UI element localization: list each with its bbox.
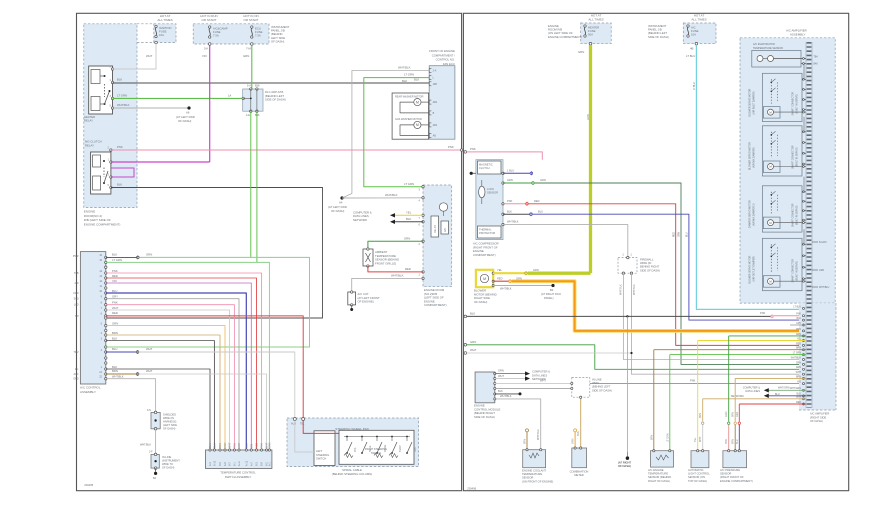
svg-text:A/C: A/C xyxy=(444,228,447,232)
svg-text:GRN: GRN xyxy=(146,253,152,257)
svg-text:WHT/BLK: WHT/BLK xyxy=(500,287,512,291)
svg-text:OF DASH): OF DASH) xyxy=(162,466,175,470)
svg-text:ALL TIMES: ALL TIMES xyxy=(157,18,172,22)
svg-text:B36: B36 xyxy=(255,114,260,117)
svg-text:YEL: YEL xyxy=(497,268,502,272)
svg-text:BRN: BRN xyxy=(219,443,222,448)
svg-text:BLK: BLK xyxy=(209,443,212,448)
svg-text:LWD: LWD xyxy=(73,292,78,295)
svg-text:B38: B38 xyxy=(255,85,260,88)
svg-text:REAR WASHER MOTOR: REAR WASHER MOTOR xyxy=(395,95,424,98)
svg-text:MAGNETIC: MAGNETIC xyxy=(479,162,493,166)
svg-text:PWR: PWR xyxy=(73,255,79,258)
svg-text:WHT: WHT xyxy=(699,436,702,442)
svg-text:(ON FRONT OF ENGINE): (ON FRONT OF ENGINE) xyxy=(522,479,553,483)
svg-text:GRN: GRN xyxy=(679,232,681,237)
svg-text:VIO: VIO xyxy=(112,279,118,283)
svg-text:PNK: PNK xyxy=(117,145,123,149)
svg-text:GRN: GRN xyxy=(470,340,476,344)
svg-text:PNK: PNK xyxy=(760,311,766,315)
svg-text:SIDE OF DASH): SIDE OF DASH) xyxy=(474,415,495,419)
svg-text:GRN: GRN xyxy=(796,362,801,364)
svg-text:PNK: PNK xyxy=(796,314,801,316)
svg-text:WHT/BLK: WHT/BLK xyxy=(620,284,623,295)
svg-text:A/C EVAPORATOR: A/C EVAPORATOR xyxy=(753,43,775,46)
svg-text:BLU: BLU xyxy=(538,209,543,213)
svg-text:YEL: YEL xyxy=(406,210,412,214)
svg-text:B-GRN: B-GRN xyxy=(819,242,827,244)
svg-text:A-9: A-9 xyxy=(224,462,227,466)
svg-text:LIGHT CONTROL: LIGHT CONTROL xyxy=(688,472,710,476)
svg-text:BLK: BLK xyxy=(117,183,122,187)
svg-text:GRN: GRN xyxy=(819,270,824,272)
svg-text:OR START: OR START xyxy=(202,18,217,22)
svg-text:VIO: VIO xyxy=(202,54,208,58)
svg-text:BRN: BRN xyxy=(699,413,702,418)
svg-text:OF DASH): OF DASH) xyxy=(178,119,191,123)
svg-text:SENSOR: SENSOR xyxy=(487,191,498,195)
svg-text:(RIGHT FRONT OF: (RIGHT FRONT OF xyxy=(720,475,744,479)
svg-text:FRONT GRILLE): FRONT GRILLE) xyxy=(375,261,396,265)
svg-text:BLOWER SERVO MOTOR: BLOWER SERVO MOTOR xyxy=(750,88,752,116)
svg-text:TOP OF DASH): TOP OF DASH) xyxy=(688,479,707,483)
svg-text:SIDE OF DASH): SIDE OF DASH) xyxy=(592,388,612,392)
svg-text:AUTOMATIC: AUTOMATIC xyxy=(688,468,704,472)
svg-text:WHT: WHT xyxy=(796,372,802,374)
svg-text:SIDE OF DASH): SIDE OF DASH) xyxy=(265,98,286,102)
svg-text:CLUTCH: CLUTCH xyxy=(479,166,490,170)
svg-text:(BEHIND STEERING COLUMN): (BEHIND STEERING COLUMN) xyxy=(332,472,372,476)
svg-text:GRY: GRY xyxy=(112,295,118,299)
svg-text:(AT RIGHT: (AT RIGHT xyxy=(618,461,632,465)
svg-text:OF DASH): OF DASH) xyxy=(331,209,344,213)
svg-text:LT GRN: LT GRN xyxy=(666,433,669,442)
svg-text:GRN: GRN xyxy=(404,236,410,240)
svg-text:A/C AMPLIFIER: A/C AMPLIFIER xyxy=(810,412,829,416)
svg-text:TAB: TAB xyxy=(74,272,79,275)
svg-text:4-E: 4-E xyxy=(246,114,250,117)
svg-text:RED: RED xyxy=(497,276,503,280)
svg-text:GRY: GRY xyxy=(238,442,241,448)
svg-text:SMART CONNECTOR: SMART CONNECTOR xyxy=(792,145,795,169)
svg-text:STEERING: STEERING xyxy=(316,453,329,457)
svg-text:RELAY: RELAY xyxy=(85,143,94,147)
svg-text:PNK: PNK xyxy=(112,301,118,305)
svg-text:GRN: GRN xyxy=(796,367,801,369)
svg-text:RELAY: RELAY xyxy=(84,119,93,123)
svg-text:RED: RED xyxy=(112,274,118,278)
svg-text:AID: AID xyxy=(75,282,79,285)
svg-text:WHT/GRN: WHT/GRN xyxy=(778,386,790,389)
svg-text:TEMP: TEMP xyxy=(399,445,402,452)
svg-text:SWITCH ASSEMBLY: SWITCH ASSEMBLY xyxy=(225,475,252,479)
svg-text:PNK: PNK xyxy=(234,443,237,448)
svg-text:(RIGHT SIDE: (RIGHT SIDE xyxy=(810,415,826,419)
svg-text:(AIR MIX DAMPER 2): (AIR MIX DAMPER 2) xyxy=(753,203,756,226)
svg-text:RIGHT OF DASH): RIGHT OF DASH) xyxy=(648,479,670,483)
svg-text:B-7: B-7 xyxy=(229,462,232,466)
svg-text:WHT/BLK: WHT/BLK xyxy=(140,444,151,447)
svg-text:WHT: WHT xyxy=(112,306,119,310)
svg-text:GRN: GRN xyxy=(507,178,513,182)
svg-text:ENGINE COOLANT: ENGINE COOLANT xyxy=(522,469,546,473)
svg-text:BLOWER SERVO MOTOR: BLOWER SERVO MOTOR xyxy=(750,142,752,170)
svg-text:SWITCH: SWITCH xyxy=(316,457,326,461)
svg-text:WIRE (IN: WIRE (IN xyxy=(640,261,651,265)
svg-text:(BEHIND LEFT: (BEHIND LEFT xyxy=(592,385,611,389)
svg-text:(AT RIGHT KICK: (AT RIGHT KICK xyxy=(541,292,561,296)
svg-text:BLK: BLK xyxy=(112,336,117,340)
svg-text:SENSOR: SENSOR xyxy=(522,476,533,480)
svg-text:5-A: 5-A xyxy=(247,85,251,88)
svg-text:A/C PRESSURE: A/C PRESSURE xyxy=(720,468,740,472)
svg-text:SENSOR (ON: SENSOR (ON xyxy=(688,475,705,479)
svg-text:M: M xyxy=(483,277,486,281)
svg-text:BLU: BLU xyxy=(736,439,739,444)
svg-text:RED: RED xyxy=(534,199,540,203)
svg-text:10B: 10B xyxy=(433,83,438,86)
svg-text:(BUILT IN SERVO): (BUILT IN SERVO) xyxy=(796,205,798,225)
svg-text:BLK: BLK xyxy=(402,79,407,83)
svg-text:SWITCH: SWITCH xyxy=(371,451,381,455)
svg-text:SIDE OF DASH): SIDE OF DASH) xyxy=(648,35,669,39)
svg-text:GRN: GRN xyxy=(578,50,584,54)
svg-text:GRN: GRN xyxy=(269,442,272,448)
svg-text:ORN: ORN xyxy=(224,442,227,448)
svg-text:BLK: BLK xyxy=(507,209,512,213)
svg-text:LT GRN: LT GRN xyxy=(404,182,414,186)
svg-text:WHT: WHT xyxy=(540,379,546,383)
svg-text:WHT: WHT xyxy=(229,442,232,448)
svg-text:OF DASH): OF DASH) xyxy=(163,427,176,431)
svg-text:DAMPER SERVO MOTOR: DAMPER SERVO MOTOR xyxy=(749,200,752,228)
svg-text:RED: RED xyxy=(256,443,259,448)
svg-text:GRN: GRN xyxy=(498,369,504,373)
svg-text:TEL: TEL xyxy=(300,423,305,426)
svg-text:5-K: 5-K xyxy=(204,47,208,51)
svg-text:A/C CONTROL: A/C CONTROL xyxy=(80,385,101,389)
svg-text:RELAY: RELAY xyxy=(434,225,437,233)
svg-text:(AIR INLET DAMPER): (AIR INLET DAMPER) xyxy=(753,91,756,114)
svg-text:WHT/BLK: WHT/BLK xyxy=(500,394,512,398)
svg-text:A4: A4 xyxy=(339,201,343,205)
svg-text:BRN: BRN xyxy=(732,439,735,444)
svg-text:B-9: B-9 xyxy=(261,462,264,466)
svg-text:COMPARTMENT): COMPARTMENT) xyxy=(424,303,447,307)
svg-text:WIRE: WIRE xyxy=(592,381,599,385)
svg-text:BRN: BRN xyxy=(112,331,118,335)
svg-text:LT BLU: LT BLU xyxy=(694,82,696,90)
svg-text:LT GRN: LT GRN xyxy=(112,258,122,262)
svg-text:WHT/BLK: WHT/BLK xyxy=(537,429,540,440)
svg-text:COMPARTMENT): COMPARTMENT) xyxy=(473,253,496,257)
svg-text:GND: GND xyxy=(73,378,79,381)
svg-text:SMART CONNECTOR: SMART CONNECTOR xyxy=(792,203,795,227)
svg-text:WHT/BLK: WHT/BLK xyxy=(117,103,130,107)
svg-text:WHT/BLU: WHT/BLU xyxy=(819,287,830,289)
svg-text:TAN: TAN xyxy=(577,431,580,436)
svg-text:WHT/BLK: WHT/BLK xyxy=(507,220,519,224)
svg-text:LT GRN: LT GRN xyxy=(404,73,414,77)
svg-text:1A: 1A xyxy=(228,94,231,98)
svg-text:ACC: ACC xyxy=(73,373,78,376)
svg-text:VIO: VIO xyxy=(250,444,253,448)
svg-text:ASSEMBLY: ASSEMBLY xyxy=(790,33,805,37)
svg-text:(AIR MIX DAMPER): (AIR MIX DAMPER) xyxy=(753,147,756,168)
svg-text:10A: 10A xyxy=(691,33,696,37)
svg-text:TEMPERATURE: TEMPERATURE xyxy=(648,472,668,476)
svg-text:A-1: A-1 xyxy=(269,462,272,466)
svg-text:RED: RED xyxy=(736,412,739,417)
svg-text:1 BLU: 1 BLU xyxy=(507,168,514,172)
svg-text:WIRE (IN: WIRE (IN xyxy=(163,416,174,420)
svg-text:TEMPERATURE SENSOR: TEMPERATURE SENSOR xyxy=(753,47,783,50)
svg-text:BRN: BRN xyxy=(524,439,527,444)
svg-text:(BUILT IN SERVO): (BUILT IN SERVO) xyxy=(796,147,798,167)
svg-text:BLOWER SERVO MOTOR: BLOWER SERVO MOTOR xyxy=(750,255,752,283)
svg-text:HARNESS): HARNESS) xyxy=(163,420,177,424)
svg-text:50A: 50A xyxy=(588,33,593,37)
svg-text:BLK: BLK xyxy=(214,443,217,448)
svg-text:WHT: WHT xyxy=(470,348,477,352)
svg-text:AUD: AUD xyxy=(291,423,296,426)
svg-text:WHT/BLK: WHT/BLK xyxy=(633,284,636,295)
svg-text:NETWORK: NETWORK xyxy=(353,218,367,222)
svg-text:A-11: A-11 xyxy=(238,460,241,466)
svg-text:IN-LINE: IN-LINE xyxy=(592,378,602,382)
svg-text:OF DASH): OF DASH) xyxy=(618,464,631,468)
svg-text:SENSOR (BEHIND: SENSOR (BEHIND xyxy=(648,475,671,479)
svg-text:RIGHT STEERING: RIGHT STEERING xyxy=(365,447,387,451)
svg-text:SAD: SAD xyxy=(74,298,79,301)
svg-text:4B: 4B xyxy=(690,47,694,51)
svg-text:A-3: A-3 xyxy=(209,462,212,466)
svg-text:M: M xyxy=(416,100,419,104)
svg-text:ENGINE COMPARTMENT): ENGINE COMPARTMENT) xyxy=(720,479,753,483)
svg-text:GRN: GRN xyxy=(587,114,590,120)
svg-text:AB: AB xyxy=(433,135,437,138)
svg-text:BLU: BLU xyxy=(687,232,689,237)
svg-text:J30406: J30406 xyxy=(467,486,477,490)
svg-text:B2: B2 xyxy=(550,288,554,292)
svg-text:RED: RED xyxy=(673,232,675,237)
svg-text:COMBINATION: COMBINATION xyxy=(570,470,589,474)
svg-text:COMPUTER &: COMPUTER & xyxy=(743,385,761,389)
svg-text:GRN: GRN xyxy=(533,268,539,272)
svg-text:PNK: PNK xyxy=(725,439,728,444)
svg-text:A-7: A-7 xyxy=(250,462,253,466)
svg-text:BLK: BLK xyxy=(414,78,419,82)
svg-text:10A: 10A xyxy=(159,33,164,37)
svg-text:PNK: PNK xyxy=(690,379,696,383)
svg-text:LAD: LAD xyxy=(74,304,79,307)
svg-text:RED: RED xyxy=(405,267,411,271)
svg-text:VOL: VOL xyxy=(354,447,357,452)
svg-text:WIRE TO: WIRE TO xyxy=(162,462,173,466)
svg-text:BRN: BRN xyxy=(112,369,118,373)
svg-text:M: M xyxy=(416,123,419,127)
svg-text:THERMAL: THERMAL xyxy=(479,227,492,231)
svg-text:BLK: BLK xyxy=(406,217,411,221)
svg-text:PNK: PNK xyxy=(261,443,264,448)
svg-text:BEHIND RIGHT: BEHIND RIGHT xyxy=(640,265,660,269)
svg-text:FAN ECU: FAN ECU xyxy=(443,62,455,66)
svg-text:B48: B48 xyxy=(814,64,819,66)
svg-text:WHT: WHT xyxy=(146,369,153,373)
svg-text:WHT/BLK: WHT/BLK xyxy=(398,66,411,70)
svg-text:WHT: WHT xyxy=(146,347,153,351)
svg-text:LEFT: LEFT xyxy=(316,449,323,453)
svg-text:PANEL): PANEL) xyxy=(544,296,554,300)
svg-text:LT GRN: LT GRN xyxy=(117,94,127,98)
svg-text:SIDE OF DASH): SIDE OF DASH) xyxy=(640,268,660,272)
svg-text:OR START: OR START xyxy=(244,18,259,22)
svg-text:(BUILT IN SERVO): (BUILT IN SERVO) xyxy=(796,94,798,114)
svg-text:A-13: A-13 xyxy=(245,460,248,466)
svg-text:ORN: ORN xyxy=(796,329,801,331)
svg-text:OF DASH): OF DASH) xyxy=(271,39,284,43)
svg-text:9-N: 9-N xyxy=(147,409,151,412)
svg-text:ORN: ORN xyxy=(516,276,522,280)
svg-text:DATA LINES: DATA LINES xyxy=(532,373,547,377)
svg-text:ORN: ORN xyxy=(572,438,575,444)
svg-text:(BUILT IN SERVO): (BUILT IN SERVO) xyxy=(796,261,798,281)
svg-text:GRN: GRN xyxy=(243,54,249,58)
svg-text:BLK: BLK xyxy=(498,389,503,393)
svg-text:FAN: FAN xyxy=(414,447,417,452)
svg-text:LT BLU: LT BLU xyxy=(686,54,695,58)
svg-text:COMPUTER &: COMPUTER & xyxy=(532,370,550,374)
svg-text:B-3: B-3 xyxy=(256,462,259,466)
svg-text:J30405: J30405 xyxy=(84,483,94,487)
svg-text:2-A: 2-A xyxy=(433,70,437,73)
svg-text:SENSOR: SENSOR xyxy=(720,472,731,476)
svg-text:AB1: AB1 xyxy=(433,101,438,104)
svg-text:BLU: BLU xyxy=(112,347,117,351)
svg-text:ENGINE COMPARTMENT): ENGINE COMPARTMENT) xyxy=(84,222,121,226)
svg-text:IN-LINE: IN-LINE xyxy=(162,455,171,459)
svg-text:B-1: B-1 xyxy=(234,462,237,466)
svg-text:GRN: GRN xyxy=(725,411,728,417)
svg-text:RED: RED xyxy=(112,311,118,315)
svg-text:WHT: WHT xyxy=(146,54,153,58)
svg-text:BLU: BLU xyxy=(775,393,780,396)
svg-text:A/C ENGINE: A/C ENGINE xyxy=(648,468,664,472)
svg-text:AB1: AB1 xyxy=(433,124,438,127)
svg-text:WHT/BLK: WHT/BLK xyxy=(385,193,398,197)
svg-text:BLU: BLU xyxy=(797,318,802,320)
svg-text:GAS WASHER MOTOR: GAS WASHER MOTOR xyxy=(395,118,422,121)
svg-text:B-5: B-5 xyxy=(219,462,222,466)
svg-text:NETWORK: NETWORK xyxy=(731,394,745,398)
svg-text:OF DASH): OF DASH) xyxy=(810,419,823,423)
svg-text:BLK: BLK xyxy=(112,253,117,257)
svg-text:METER: METER xyxy=(574,473,583,477)
svg-text:WHT/BLK: WHT/BLK xyxy=(112,375,124,379)
svg-text:FIREWALL: FIREWALL xyxy=(640,258,654,262)
svg-text:BLK: BLK xyxy=(117,78,122,82)
svg-text:YEL: YEL xyxy=(694,437,697,442)
svg-text:PROTECTOR: PROTECTOR xyxy=(479,231,495,235)
svg-text:ALL TIMES: ALL TIMES xyxy=(691,17,706,21)
svg-text:SMART CONNECTOR: SMART CONNECTOR xyxy=(792,259,795,283)
svg-text:BRN: BRN xyxy=(650,435,653,440)
svg-text:WHT/BLK: WHT/BLK xyxy=(391,274,404,278)
svg-text:ALL TIMES: ALL TIMES xyxy=(588,17,603,21)
svg-text:PNK: PNK xyxy=(112,269,118,273)
svg-text:ASSEMBLY: ASSEMBLY xyxy=(80,390,96,394)
svg-text:2-F: 2-F xyxy=(149,451,153,454)
svg-text:PNK: PNK xyxy=(448,145,454,149)
svg-text:OF DASH): OF DASH) xyxy=(474,300,487,304)
svg-text:OF ENGINE): OF ENGINE) xyxy=(358,300,374,304)
svg-text:BLU: BLU xyxy=(112,289,117,293)
svg-text:ENGINE COMPARTMENT): ENGINE COMPARTMENT) xyxy=(548,35,582,39)
svg-text:7.5A: 7.5A xyxy=(213,34,219,38)
svg-text:RED: RED xyxy=(796,343,801,345)
svg-text:DATA LINES: DATA LINES xyxy=(745,389,760,393)
svg-text:(LEFT SIDE: (LEFT SIDE xyxy=(163,423,177,427)
svg-text:TEMPERATURE: TEMPERATURE xyxy=(522,472,542,476)
svg-text:7.5A: 7.5A xyxy=(255,34,261,38)
svg-text:BLU: BLU xyxy=(245,443,248,448)
svg-text:PNK: PNK xyxy=(507,199,513,203)
svg-text:PNK: PNK xyxy=(470,147,476,151)
svg-text:GRN: GRN xyxy=(540,178,546,182)
svg-text:TB4: TB4 xyxy=(814,57,819,59)
svg-text:(AIR OUTLET DAMPER): (AIR OUTLET DAMPER) xyxy=(753,256,756,282)
svg-text:SHIELDED: SHIELDED xyxy=(163,413,176,417)
svg-text:LT BLU: LT BLU xyxy=(793,306,801,308)
svg-text:BRN: BRN xyxy=(732,412,735,417)
svg-text:BLK: BLK xyxy=(470,312,475,316)
svg-text:ORN: ORN xyxy=(112,321,118,325)
svg-text:TW2: TW2 xyxy=(73,351,79,354)
svg-text:VIO: VIO xyxy=(797,382,801,384)
svg-text:LOCK: LOCK xyxy=(487,187,494,191)
svg-text:B-10: B-10 xyxy=(214,460,217,466)
svg-text:TEMPERATURE CONTROL: TEMPERATURE CONTROL xyxy=(220,470,256,474)
svg-text:WHT/BLK: WHT/BLK xyxy=(791,357,802,359)
svg-text:(INSTRUMENT: (INSTRUMENT xyxy=(162,459,180,463)
svg-text:A6: A6 xyxy=(186,111,190,115)
svg-text:WHT: WHT xyxy=(498,374,504,378)
svg-text:7-M: 7-M xyxy=(246,47,251,51)
